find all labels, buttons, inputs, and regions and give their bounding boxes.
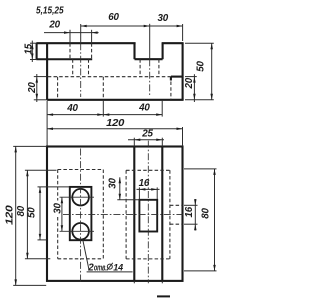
svg-text:25: 25 [141, 129, 153, 140]
dimension 80 plan right [184, 169, 217, 271]
svg-text:20: 20 [184, 77, 195, 89]
svg-text:120: 120 [106, 118, 125, 129]
dimension 50 plan left [27, 187, 70, 240]
dimension 30 front top [150, 13, 183, 41]
dimension 120 plan left [5, 146, 48, 285]
dimension 40 40 front bottom [47, 101, 162, 147]
svg-text:16: 16 [184, 206, 195, 217]
plan view outline [47, 147, 183, 281]
svg-text:60: 60 [108, 12, 119, 23]
dimension 16 plan right [184, 199, 198, 231]
svg-text:80: 80 [16, 205, 27, 216]
dimension 50 front right [185, 43, 214, 100]
plan pocket square [139, 200, 157, 232]
dimension 30 plan middle [107, 177, 139, 200]
front view right step edge [171, 77, 184, 81]
svg-text:14: 14 [113, 262, 123, 272]
plan slot rectangle [70, 187, 92, 240]
hole circle top [72, 189, 89, 206]
plan channel right edge [161, 147, 163, 284]
front view hidden hole walls middle band [73, 59, 89, 76]
front view hidden pocket walls under notch [140, 59, 159, 76]
front view hole centerline [80, 43, 82, 97]
svg-text:30: 30 [107, 178, 118, 189]
leader 2 holes dia 14 [83, 240, 133, 273]
hole centerline top [60, 196, 95, 198]
svg-text:5,15,25: 5,15,25 [36, 5, 64, 16]
svg-text:16: 16 [139, 178, 150, 189]
dimension 120 plan top [47, 118, 183, 147]
plan hidden recess right rect [126, 170, 170, 259]
svg-text:40: 40 [66, 103, 78, 114]
dimension 60 front top [81, 12, 150, 59]
svg-text:30: 30 [53, 203, 64, 214]
svg-text:20: 20 [48, 20, 60, 31]
front view hidden slot walls top band [70, 43, 92, 59]
front view outline [36, 43, 183, 100]
svg-text:50: 50 [27, 207, 38, 218]
dimension 20 front top slot [44, 20, 99, 44]
plan horizontal centerline [63, 213, 186, 215]
svg-text:20: 20 [27, 82, 38, 94]
svg-text:15: 15 [24, 43, 35, 54]
hole circle bottom [72, 223, 89, 240]
svg-text:80: 80 [201, 208, 212, 219]
svg-text:40: 40 [138, 103, 150, 114]
dimension 30 plan left hole spacing [53, 197, 64, 231]
hole centerline bottom [60, 230, 95, 232]
dimension 20 front lower-left [27, 74, 47, 102]
front view hidden floor line [48, 76, 171, 78]
svg-text:отв.: отв. [94, 262, 107, 272]
dimension 16 plan channel [137, 178, 160, 199]
plan vertical centerline holes [80, 149, 82, 283]
dimension 15 front left [24, 41, 37, 62]
plan hidden recess left rect [58, 170, 104, 259]
svg-text:50: 50 [195, 61, 206, 72]
dimension 80 plan left [16, 170, 57, 258]
svg-text:120: 120 [5, 205, 16, 225]
front view slot centerline [149, 59, 151, 96]
svg-text:30: 30 [158, 13, 169, 24]
dimension 20 front right [184, 74, 197, 102]
plan vertical centerline channel [147, 141, 149, 284]
dimension 25 plan top [128, 129, 164, 147]
front view hidden lower recess walls [58, 77, 171, 100]
plan hidden side pocket stubs [170, 205, 183, 224]
plan channel left edge [133, 147, 135, 284]
bottom mark [157, 295, 170, 297]
